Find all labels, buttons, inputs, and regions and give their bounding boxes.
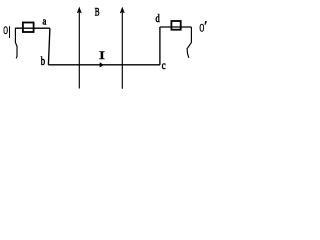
svg-text:′: ′ (204, 19, 207, 33)
svg-text:d: d (156, 13, 160, 25)
svg-text:b: b (41, 56, 45, 69)
svg-text:a: a (42, 16, 47, 28)
svg-text:O: O (200, 21, 205, 35)
svg-text:I: I (99, 49, 105, 62)
svg-text:B: B (95, 6, 100, 19)
svg-text:c: c (162, 60, 166, 72)
svg-text:O: O (3, 25, 8, 37)
